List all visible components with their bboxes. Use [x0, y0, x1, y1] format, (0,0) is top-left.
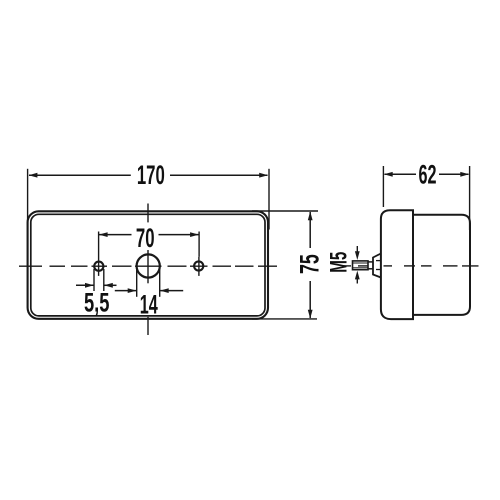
side view centerline: [344, 265, 479, 267]
side view body outline: [413, 215, 470, 315]
dim 170 arrowheads: [29, 173, 38, 178]
side view lens outline: [381, 210, 413, 319]
dim 170 dimension line: [29, 174, 131, 176]
dim 70 leader lines: [98, 232, 100, 276]
dim 14 dimension line with inward arrows: [115, 290, 137, 292]
dim 70 dimension line: [99, 234, 132, 236]
dim 75 dimension line: [309, 212, 311, 248]
dim 14 leader lines: [136, 267, 138, 297]
horizontal centerline (front view): [19, 265, 277, 267]
dim 5,5 leader lines: [93, 269, 95, 291]
svg-text:14: 14: [140, 289, 158, 319]
svg-text:M5: M5: [326, 252, 352, 273]
vertical centerline (front view): [147, 204, 149, 336]
M5 threaded stud: [353, 261, 369, 270]
svg-text:170: 170: [137, 160, 165, 190]
svg-text:62: 62: [418, 159, 436, 189]
dim 70 arrowheads: [99, 232, 108, 237]
dim 62 extension lines: [382, 166, 384, 207]
front view outer body outline: [28, 211, 268, 318]
dim M5 arrow lines: [356, 246, 358, 256]
svg-text:75: 75: [294, 254, 325, 274]
svg-text:70: 70: [136, 223, 155, 253]
dim 5,5 dimension line with inward arrows: [76, 284, 94, 286]
svg-text:5,5: 5,5: [84, 287, 110, 317]
right mounting hole: [194, 261, 203, 270]
dim 75 arrowheads: [308, 211, 313, 220]
dim 75 extension lines: [252, 210, 318, 212]
left mounting hole: [94, 262, 103, 271]
dim 62 dimension line: [385, 173, 417, 175]
center hole circle: [137, 254, 160, 277]
dim 170 extension lines: [27, 169, 29, 225]
front view inner lens outline: [31, 214, 265, 316]
stud thread core lines: [353, 262, 369, 264]
dim 62 arrowheads: [384, 172, 393, 177]
right hole vertical cross line: [198, 257, 200, 276]
stud collar: [368, 261, 373, 263]
boss inner lines: [376, 260, 381, 262]
mounting boss trapezoid: [373, 254, 381, 278]
